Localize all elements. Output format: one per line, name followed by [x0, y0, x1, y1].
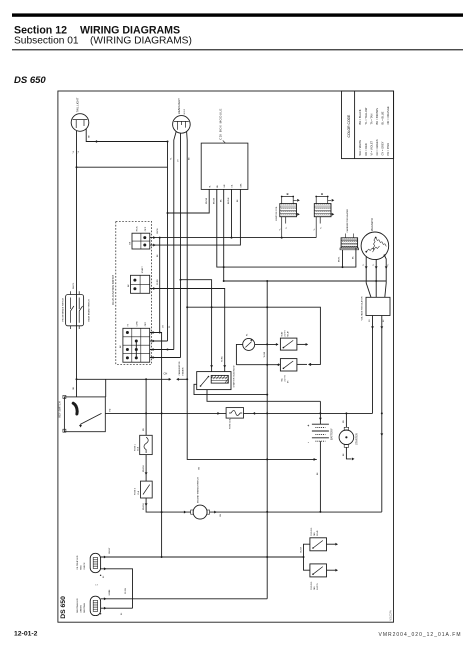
wire tail light BK branch right: [86, 129, 167, 142]
switch fan B: [310, 564, 327, 577]
svg-text:BK/WH: BK/WH: [228, 197, 230, 204]
svg-text:CH: CH: [164, 372, 168, 376]
svg-text:CDI BOX MODULE: CDI BOX MODULE: [219, 108, 223, 140]
switch start button: [131, 275, 150, 293]
key switch wiper arrow: [80, 413, 102, 424]
svg-text:YL: YL: [78, 150, 80, 153]
svg-text:WH = WHITE: WH = WHITE: [358, 140, 362, 156]
svg-text:MULTI-FUNCTION SWITCH: MULTI-FUNCTION SWITCH: [112, 274, 115, 305]
svg-text:OR = ORANGE: OR = ORANGE: [386, 106, 390, 124]
svg-text:BK: BK: [199, 466, 201, 469]
svg-text:TAIL LIGHT: TAIL LIGHT: [76, 97, 80, 112]
svg-text:CARBURETOR HEATER: CARBURETOR HEATER: [346, 209, 349, 233]
svg-text:BK: BK: [188, 157, 190, 160]
svg-text:OFF: OFF: [145, 321, 147, 326]
switch engine thermo: [193, 505, 207, 519]
svg-text:STARTER SOLENOID: STARTER SOLENOID: [233, 365, 236, 387]
svg-text:GY: GY: [163, 325, 165, 328]
svg-text:12-01-2: 12-01-2: [14, 630, 38, 637]
wire fan switch branch: [304, 544, 310, 570]
wire headlight lead GY: [180, 133, 182, 357]
wire fuse F1 to F2: [145, 455, 147, 482]
wire lights row3 to headlight YL: [150, 349, 174, 351]
wire key switch feed branch: [77, 378, 170, 380]
wire neutral lamp lower: [101, 607, 133, 609]
switch lights HI-LOW-OFF: [123, 328, 150, 362]
svg-text:HEADLIGHT: HEADLIGHT: [177, 98, 181, 114]
svg-text:OFF: OFF: [145, 226, 147, 231]
svg-text:BK: BK: [288, 380, 290, 383]
fuse F2 15A (breaker): [141, 481, 153, 498]
svg-text:OR: OR: [73, 386, 75, 390]
svg-text:Section 12: Section 12: [14, 24, 67, 36]
wire check lamp lower: [101, 569, 133, 608]
svg-text:GN = GREEN: GN = GREEN: [375, 139, 379, 155]
wire battery feed from solenoid output: [207, 390, 320, 402]
svg-text:OIL: OIL: [232, 185, 234, 188]
svg-text:YL: YL: [280, 228, 282, 230]
wire regulator RD output: [372, 316, 374, 414]
svg-text:BK: BK: [121, 612, 123, 615]
svg-text:YL: YL: [314, 228, 316, 230]
svg-text:TAIL: TAIL: [281, 378, 284, 382]
svg-text:30 A: 30 A: [137, 446, 140, 451]
wire thermo switch to BK return: [210, 511, 382, 513]
svg-text:RD: RD: [369, 319, 371, 322]
resistor carburetor heater element: [341, 238, 358, 248]
svg-text:VI = VIOLET: VI = VIOLET: [369, 140, 373, 155]
svg-text:LIGHTS: LIGHTS: [285, 330, 287, 337]
svg-text:DS 650: DS 650: [14, 75, 46, 86]
svg-text:YL: YL: [321, 227, 323, 229]
wire CDI pin 1 to headlight net: [168, 189, 210, 213]
svg-text:FUSE 30 A: FUSE 30 A: [229, 418, 232, 429]
wire solenoid coil feed junction: [211, 306, 213, 308]
header top rule: [12, 13, 463, 16]
svg-text:BR = BROWN: BR = BROWN: [375, 108, 379, 125]
wire net tail lights feed: [159, 238, 161, 333]
wire fan feed horizontal: [101, 556, 304, 558]
svg-text:COOLING: COOLING: [311, 527, 313, 536]
wire main vertical net YL/GN: [266, 281, 268, 599]
wire heater lead left: [342, 250, 344, 267]
wire CDI pin 2 to carb heater element: [217, 189, 356, 267]
wire lights row4 to headlight GY: [150, 357, 181, 359]
svg-text:LT: LT: [96, 585, 99, 587]
ignition coil 1: [280, 196, 297, 217]
svg-text:WIRING DIAGRAMS: WIRING DIAGRAMS: [80, 24, 180, 36]
color code legend box: [342, 91, 394, 159]
svg-text:REAR BRAKE SWITCH: REAR BRAKE SWITCH: [87, 299, 90, 322]
wire kill line to ignition coils: [150, 237, 316, 239]
voltage regulator: [366, 297, 390, 315]
svg-text:WH/YL: WH/YL: [73, 282, 75, 289]
svg-text:YL: YL: [286, 227, 288, 229]
wire engine stop lower: [153, 244, 156, 247]
wire lights row1 to fan net: [150, 333, 162, 558]
svg-text:BK/GN: BK/GN: [214, 197, 216, 204]
svg-text:BK/GY: BK/GY: [109, 547, 111, 554]
svg-text:NEUTRAL LED: NEUTRAL LED: [76, 598, 79, 613]
generator magneto: [361, 232, 389, 260]
svg-text:GN/BK: GN/BK: [109, 589, 111, 596]
svg-text:15 A: 15 A: [137, 490, 140, 495]
svg-text:GY = GREY: GY = GREY: [381, 141, 385, 155]
svg-text:BK: BK: [128, 284, 130, 287]
svg-text:BK/YL: BK/YL: [157, 228, 159, 233]
svg-text:BL = BLUE: BL = BLUE: [381, 111, 385, 124]
svg-text:VOLTAGE REGULATOR: VOLTAGE REGULATOR: [360, 296, 363, 320]
switch front/rear brake: [66, 295, 84, 326]
svg-text:YL: YL: [373, 264, 375, 266]
battery: [319, 401, 321, 424]
svg-text:SWITCH: SWITCH: [317, 582, 319, 590]
ignition coil 2: [314, 196, 331, 217]
wire magneto phase 3: [385, 256, 387, 298]
svg-text:IGNITION COIL: IGNITION COIL: [276, 205, 278, 221]
fuse F1 30A: [140, 435, 153, 454]
wire relay B right stub: [297, 363, 307, 365]
svg-text:BK: BK: [89, 134, 91, 137]
wire regulator BK output: [381, 316, 383, 512]
svg-text:(WIRING DIAGRAMS): (WIRING DIAGRAMS): [90, 36, 192, 47]
svg-text:YL/GN: YL/GN: [125, 588, 127, 594]
svg-text:BK: BK: [130, 241, 132, 244]
svg-text:GN: GN: [224, 184, 226, 187]
relay A: [280, 338, 297, 350]
wire start button to solenoid: [150, 289, 225, 372]
svg-text:COLOR CODE: COLOR CODE: [347, 114, 351, 138]
svg-text:FUSE 2: FUSE 2: [135, 487, 137, 495]
diagram border frame: [58, 91, 394, 622]
svg-text:HEATER: HEATER: [182, 367, 185, 376]
svg-text:RUN: RUN: [137, 226, 139, 231]
svg-text:B: B: [321, 192, 323, 196]
wire tail light WH/YL down to key switch: [76, 131, 78, 397]
relay starter solenoid: [197, 372, 231, 390]
wire pilot lamp left: [236, 344, 242, 364]
svg-text:YL/RD: YL/RD: [222, 356, 224, 362]
svg-text:CHECK: CHECK: [84, 562, 86, 570]
svg-text:Subsection 01: Subsection 01: [14, 36, 79, 47]
connector neutral lamp: [90, 596, 100, 615]
svg-text:RD = RED: RD = RED: [364, 143, 368, 155]
wire key switch output to main fuse: [105, 412, 226, 414]
wire CDI pin 4 from stop switch: [231, 189, 233, 237]
wire battery negative: [319, 441, 321, 512]
svg-text:YL: YL: [171, 157, 173, 160]
wire CDI pin 3 to main vertical net: [223, 189, 225, 267]
svg-text:KEY SWITCH: KEY SWITCH: [58, 401, 62, 417]
svg-text:FAN: FAN: [313, 586, 316, 590]
svg-text:LOW: LOW: [136, 320, 138, 326]
relay B: [280, 359, 297, 371]
svg-text:BK: BK: [120, 345, 122, 348]
svg-text:FUSE 1: FUSE 1: [134, 443, 136, 451]
wire starter feed: [345, 413, 347, 427]
fuse F3 main 30A: [226, 408, 243, 419]
switch fan A: [310, 538, 327, 551]
svg-text:GY: GY: [177, 158, 179, 162]
svg-text:BK: BK: [237, 199, 239, 202]
wire net down to kill line: [224, 267, 387, 281]
svg-text:PK = PINK: PK = PINK: [386, 143, 390, 156]
wire headlight lead BK ground return: [187, 132, 317, 460]
svg-text:BK: BK: [157, 254, 159, 257]
svg-text:YL: YL: [209, 185, 211, 187]
svg-text:RD: RD: [343, 420, 345, 423]
svg-text:B: B: [287, 192, 289, 196]
svg-text:HI: HI: [128, 324, 130, 327]
wire magneto phase 2: [375, 260, 377, 298]
svg-text:YL/RD: YL/RD: [157, 279, 159, 285]
svg-text:DS 650: DS 650: [60, 596, 67, 619]
switch ignition key: [64, 397, 105, 432]
svg-text:LIGHTS: LIGHTS: [285, 374, 287, 381]
wire CDI pin 5 from stop switch: [150, 189, 241, 245]
svg-text:RD/WH: RD/WH: [143, 503, 145, 510]
motor starter: [339, 430, 354, 445]
svg-text:RD/WH: RD/WH: [143, 465, 145, 472]
wire magneto phase 1: [366, 256, 371, 297]
svg-text:CARBURETOR: CARBURETOR: [178, 361, 181, 376]
svg-text:BK: BK: [103, 575, 105, 578]
svg-text:+: +: [307, 424, 309, 428]
wire engine stop upper: [153, 236, 156, 239]
header bottom rule: [12, 49, 463, 50]
svg-text:YL: YL: [387, 264, 389, 266]
svg-text:RD/GN: RD/GN: [206, 197, 208, 204]
wire GY branch to solenoid: [181, 280, 212, 372]
svg-text:NEUTRAL: NEUTRAL: [83, 602, 86, 613]
svg-text:YL = YELLOW: YL = YELLOW: [364, 107, 368, 124]
lamp tail light: [71, 114, 89, 132]
wire main rail to regulator: [244, 412, 373, 414]
svg-text:RED: RED: [81, 565, 83, 570]
svg-text:VMR2004_020_12_01A.FM: VMR2004_020_12_01A.FM: [379, 632, 462, 638]
svg-text:BK: BK: [353, 256, 355, 259]
wire starter ground: [346, 447, 351, 459]
svg-text:TA = TAN: TA = TAN: [369, 113, 373, 124]
svg-text:YL: YL: [363, 264, 365, 266]
wire relay loop: [187, 307, 320, 364]
svg-text:BK = BLACK: BK = BLACK: [358, 109, 362, 124]
module CDI box: [201, 143, 248, 189]
lamp pilot indicator: [243, 338, 255, 350]
svg-text:GREEN: GREEN: [81, 605, 83, 613]
wire neutral lamp upper: [101, 598, 268, 600]
svg-text:RELAY: RELAY: [287, 330, 290, 337]
wire relay B left: [236, 364, 280, 366]
multi-function switch housing (dashed): [116, 221, 152, 364]
svg-text:HI LO: HI LO: [184, 109, 186, 115]
connector oil temp check lamp: [90, 553, 100, 572]
wire fuse F2 to thermo switch: [146, 498, 191, 512]
svg-text:STARTER: STARTER: [354, 433, 358, 445]
svg-text:START: START: [141, 266, 144, 274]
lamp headlight: [173, 116, 191, 134]
svg-text:BK: BK: [220, 513, 222, 516]
svg-text:BK: BK: [317, 472, 319, 475]
svg-text:BK/YL: BK/YL: [339, 257, 341, 262]
svg-text:BL/GY: BL/GY: [301, 546, 303, 552]
wire relay A output: [297, 343, 307, 345]
wire cross link at y167: [77, 166, 168, 168]
svg-text:RD: RD: [110, 408, 112, 411]
svg-text:BK: BK: [383, 319, 385, 322]
svg-text:FAN: FAN: [313, 532, 316, 536]
svg-text:YL: YL: [73, 150, 75, 153]
svg-text:OIL TEMP LED: OIL TEMP LED: [77, 555, 79, 570]
wire headlight lead left long vertical: [167, 142, 169, 342]
svg-text:YL: YL: [169, 326, 171, 328]
wire lights row2 to taillight net: [150, 340, 168, 342]
svg-text:YL/GN: YL/GN: [264, 351, 266, 357]
svg-text:BK: BK: [220, 199, 222, 202]
svg-text:COOLING: COOLING: [311, 581, 313, 590]
svg-text:ENGINE THERMOSWITCH: ENGINE THERMOSWITCH: [198, 477, 200, 503]
wire pilot lamp right to relay A: [255, 343, 278, 345]
wire solenoid output to net: [194, 384, 267, 394]
svg-text:RELAY: RELAY: [316, 529, 319, 536]
svg-text:PL: PL: [247, 334, 249, 336]
svg-text:HEAD: HEAD: [281, 331, 284, 337]
wire heater top pins: [346, 234, 354, 238]
wire headlight lead YL: [174, 132, 176, 350]
svg-text:BATTERY: BATTERY: [330, 428, 334, 440]
svg-text:RD: RD: [143, 428, 145, 431]
svg-text:-: -: [308, 440, 310, 444]
svg-text:MAGNETO: MAGNETO: [370, 218, 374, 231]
svg-text:CHK: CHK: [241, 183, 243, 188]
svg-text:BK: BK: [217, 184, 219, 187]
svg-text:V01C2FA: V01C2FA: [389, 610, 392, 621]
switch engine stop: [132, 233, 150, 249]
svg-text:FRONT BRAKE SWITCH: FRONT BRAKE SWITCH: [61, 297, 64, 321]
svg-text:BK: BK: [343, 453, 345, 456]
